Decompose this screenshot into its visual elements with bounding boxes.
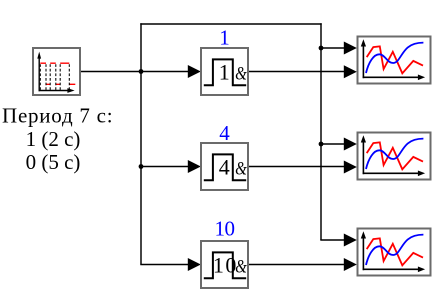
wire: branch to block 4 input — [141, 166, 189, 168]
svg-text:1 (2 с): 1 (2 с) — [26, 127, 81, 151]
port arrowhead into scope 1 upper input — [344, 42, 357, 55]
pulse block 10 body — [201, 241, 248, 288]
annotation text: Период 7 с: / 1 (2 с) / 0 (5 с) — [2, 103, 113, 174]
scope block 1 — [358, 37, 431, 84]
wire: source output to block 1 input — [81, 71, 189, 73]
svg-text:Период 7 с:: Период 7 с: — [2, 103, 113, 127]
junction dot at right rail scope 1 branch — [319, 46, 324, 51]
svg-text:10: 10 — [213, 253, 237, 278]
pulse generator source block body — [33, 48, 80, 95]
port arrowhead into block 4 — [188, 160, 201, 173]
junction dot at left rail block 4 branch — [139, 164, 144, 169]
svg-text:10: 10 — [215, 216, 236, 240]
wire: left vertical rail — [140, 23, 142, 264]
svg-text:&: & — [235, 64, 247, 84]
svg-text:4: 4 — [219, 155, 230, 180]
source icon vertical axis — [38, 56, 40, 91]
scope block 3 — [358, 229, 431, 276]
junction dot at source line and left rail — [139, 69, 144, 74]
svg-text:&: & — [235, 159, 247, 179]
svg-text:4: 4 — [219, 121, 230, 145]
port arrowhead into scope 2 lower input — [344, 161, 357, 174]
pulse block 4 body — [201, 143, 248, 190]
wire: branch to block 10 input — [140, 264, 189, 266]
port arrowhead into scope 3 upper input — [344, 234, 357, 247]
source icon red low segments — [46, 83, 75, 85]
port arrowhead into scope 2 upper input — [344, 138, 357, 151]
svg-text:&: & — [235, 257, 247, 277]
pulse block 1 body — [201, 48, 248, 95]
port arrowhead into block 1 — [188, 65, 201, 78]
wire: rail branch to scope 2 upper input — [321, 143, 345, 145]
wire: block 1 output to scope 1 lower input — [249, 71, 345, 73]
wire: rail branch to scope 1 upper input — [321, 47, 345, 49]
junction dot at right rail scope 2 branch — [319, 142, 324, 147]
port arrowhead into scope 1 lower input — [344, 65, 357, 78]
wire: top rail from left rail to right rail — [140, 23, 321, 25]
scope block 2 — [358, 133, 431, 180]
wire: block 10 output to scope 3 lower input — [249, 264, 345, 266]
svg-text:1: 1 — [219, 60, 230, 85]
source icon dashed pulse edges — [40, 64, 69, 90]
source icon horizontal axis — [39, 90, 71, 92]
port arrowhead into block 10 — [188, 258, 201, 271]
wire: block 4 output to scope 2 lower input — [249, 166, 345, 168]
source icon red high segments — [40, 62, 69, 64]
port arrowhead into scope 3 lower input — [344, 258, 357, 271]
wire: rail bottom to scope 3 upper input — [320, 239, 345, 241]
svg-text:1: 1 — [219, 26, 230, 50]
svg-text:0 (5 с): 0 (5 с) — [26, 150, 81, 174]
wire: right vertical rail — [320, 23, 322, 240]
